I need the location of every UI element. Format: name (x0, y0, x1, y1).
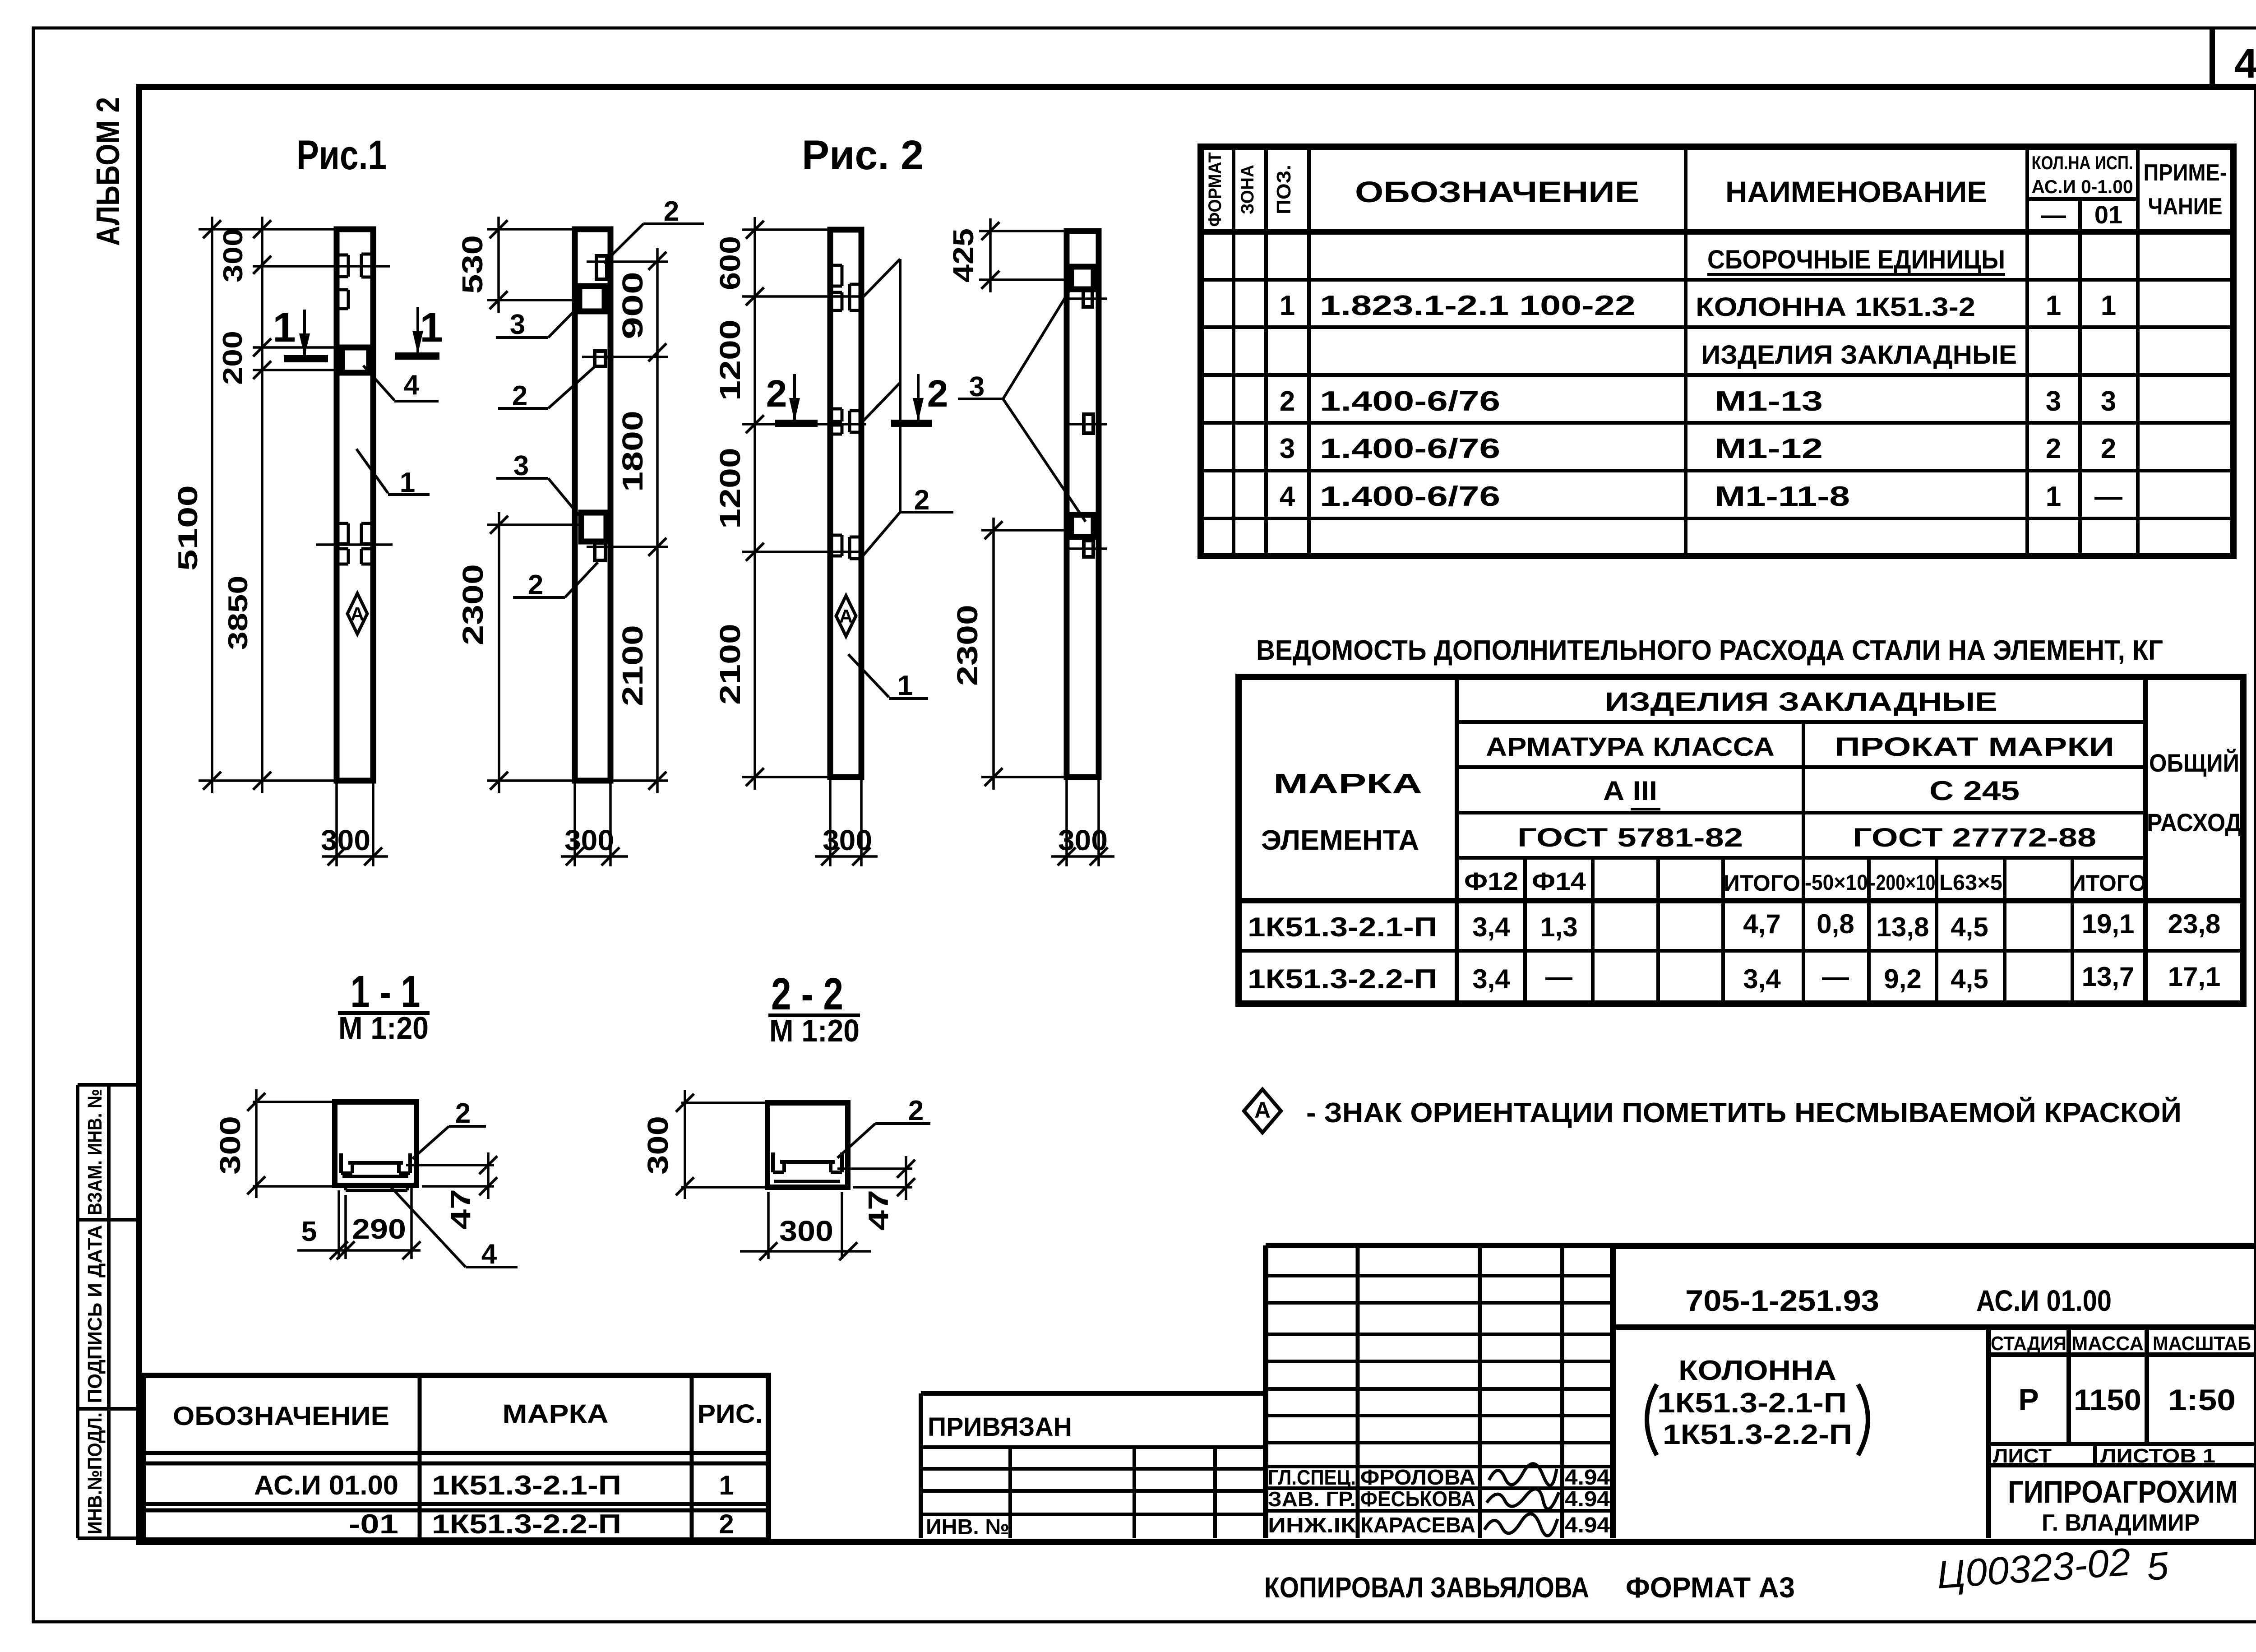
svg-text:Ц00323-02: Ц00323-02 (1936, 1540, 2132, 1597)
svg-text:КОПИРОВАЛ ЗАВЬЯЛОВА: КОПИРОВАЛ ЗАВЬЯЛОВА (1264, 1571, 1589, 1604)
svg-text:1:50: 1:50 (2168, 1383, 2236, 1416)
svg-text:М1-12: М1-12 (1715, 433, 1823, 464)
fig1 view1 plate item4 (342, 347, 369, 373)
svg-text:Ф12: Ф12 (1464, 867, 1518, 895)
svg-text:4.94: 4.94 (1565, 1513, 1610, 1537)
svg-text:КОЛ.НА ИСП.: КОЛ.НА ИСП. (2032, 152, 2133, 173)
svg-text:ГОСТ 27772-88: ГОСТ 27772-88 (1853, 823, 2096, 852)
svg-text:АЛЬБОМ 2: АЛЬБОМ 2 (90, 97, 126, 246)
svg-text:200: 200 (217, 331, 248, 385)
svg-text:1: 1 (400, 467, 415, 498)
title block left stamp (921, 1391, 1266, 1396)
svg-text:3: 3 (2101, 386, 2116, 417)
svg-text:ИЗДЕЛИЯ ЗАКЛАДНЫЕ: ИЗДЕЛИЯ ЗАКЛАДНЫЕ (1701, 340, 2017, 370)
svg-text:КОЛОННА 1К51.3-2: КОЛОННА 1К51.3-2 (1696, 292, 1975, 322)
svg-text:А: А (839, 606, 853, 627)
svg-text:300: 300 (321, 824, 370, 856)
svg-text:1К51.3-2.1-П: 1К51.3-2.1-П (1657, 1388, 1847, 1419)
fig1 view1 dim line 5100 (211, 217, 213, 793)
svg-text:1.400-6/76: 1.400-6/76 (1320, 481, 1500, 512)
svg-text:ЗАВ. ГР.: ЗАВ. ГР. (1268, 1487, 1356, 1511)
svg-text:1: 1 (420, 305, 443, 351)
svg-text:КАРАСЕВА: КАРАСЕВА (1360, 1513, 1475, 1537)
svg-text:- ЗНАК ОРИЕНТАЦИИ ПОМЕТИТЬ НЕС: - ЗНАК ОРИЕНТАЦИИ ПОМЕТИТЬ НЕСМЫВАЕМОЙ К… (1306, 1097, 2182, 1129)
svg-text:Рис.1: Рис.1 (296, 132, 387, 178)
fig2 view1 dim 600/1200/1200/2100 (754, 217, 756, 790)
svg-text:-50×10: -50×10 (1805, 871, 1868, 895)
svg-text:ИНЖ.IК: ИНЖ.IК (1268, 1513, 1356, 1537)
fig1 view1 mid plate marks (337, 522, 348, 525)
svg-text:300: 300 (779, 1215, 833, 1247)
svg-text:1150: 1150 (2074, 1383, 2141, 1416)
svg-text:Г. ВЛАДИМИР: Г. ВЛАДИМИР (2042, 1510, 2200, 1536)
fig1 view1 leader 1 (356, 449, 388, 493)
fig1 view2 leader 2 upper (548, 366, 596, 408)
svg-text:4: 4 (481, 1239, 497, 1270)
svg-text:—: — (2041, 200, 2066, 229)
section 1-1 channel plate (348, 1161, 403, 1165)
svg-text:ЧАНИЕ: ЧАНИЕ (2148, 194, 2223, 220)
fig2 view1 column outline (830, 230, 861, 777)
svg-text:ПОДПИСЬ И ДАТА: ПОДПИСЬ И ДАТА (84, 1225, 106, 1403)
svg-text:1200: 1200 (714, 319, 746, 401)
fig1 view2 leader 3 lower (548, 478, 582, 519)
svg-text:ПОЗ.: ПОЗ. (1273, 165, 1295, 214)
svg-text:ЭЛЕМЕНТА: ЭЛЕМЕНТА (1261, 825, 1419, 856)
svg-text:19,1: 19,1 (2082, 909, 2135, 939)
svg-text:3: 3 (2046, 386, 2061, 417)
svg-text:2: 2 (914, 485, 929, 516)
svg-text:5: 5 (301, 1216, 317, 1247)
svg-text:2100: 2100 (616, 625, 649, 706)
svg-text:ПРИМЕ-: ПРИМЕ- (2144, 160, 2227, 186)
svg-text:300: 300 (1058, 824, 1108, 856)
fig2 view2 dim 425 (989, 218, 992, 292)
section 1-1 dim 47 (406, 1164, 494, 1166)
section 2-2 dim 300 left (684, 1090, 686, 1199)
svg-text:А: А (1254, 1097, 1271, 1123)
svg-text:РИС.: РИС. (698, 1399, 763, 1429)
svg-text:47: 47 (863, 1190, 894, 1231)
fig1 view2 leader 2 top (604, 224, 643, 263)
svg-text:Р: Р (2018, 1383, 2039, 1417)
section 2-2 dim 300 bottom (767, 1192, 770, 1259)
fig1 view1 orientation diamond (347, 593, 367, 634)
svg-text:Ф14: Ф14 (1532, 867, 1586, 895)
fig1 view2 plate item3 top (579, 286, 605, 311)
svg-text:900: 900 (616, 272, 649, 339)
svg-text:2: 2 (2101, 433, 2116, 464)
svg-text:23,8: 23,8 (2168, 909, 2221, 939)
section 2-2 square outline (767, 1103, 848, 1187)
section 2-2 channel plate (780, 1160, 835, 1164)
note orientation diamond (1244, 1089, 1281, 1133)
svg-text:9,2: 9,2 (1884, 964, 1921, 994)
svg-text:4: 4 (404, 370, 420, 401)
svg-text:3,4: 3,4 (1472, 912, 1510, 942)
svg-text:1К51.3-2.1-П: 1К51.3-2.1-П (432, 1470, 621, 1500)
svg-text:0,8: 0,8 (1817, 909, 1854, 939)
section 1-1 square outline (335, 1102, 416, 1185)
fig1 view1 column outline (337, 229, 373, 781)
svg-text:1: 1 (273, 305, 296, 351)
svg-text:300: 300 (642, 1116, 674, 1175)
svg-text:ЗОНА: ЗОНА (1238, 165, 1257, 214)
svg-text:13,7: 13,7 (2082, 962, 2135, 992)
svg-text:ВЗАМ. ИНВ. №: ВЗАМ. ИНВ. № (84, 1089, 106, 1215)
svg-text:5: 5 (2145, 1544, 2171, 1589)
svg-text:2: 2 (2046, 433, 2061, 464)
svg-text:425: 425 (947, 228, 980, 282)
fig1 view1 section mark 1 right (395, 352, 439, 360)
svg-text:ФОРМАТ А3: ФОРМАТ А3 (1626, 1571, 1795, 1604)
section 1-1 dim 5 and 290 (337, 1190, 340, 1259)
svg-text:1: 1 (1280, 290, 1295, 321)
fig2 view2 dim 2300 (992, 518, 995, 790)
svg-text:ОБОЗНАЧЕНИЕ: ОБОЗНАЧЕНИЕ (1355, 175, 1639, 208)
fig2 view2 plate item3 top (1071, 267, 1094, 289)
fig2 view1 leader 1 (848, 654, 889, 697)
fig2 view1 orientation diamond (836, 596, 856, 636)
svg-text:4,5: 4,5 (1951, 964, 1988, 994)
svg-text:ФОРМАТ: ФОРМАТ (1205, 153, 1225, 227)
sheet number box (2210, 28, 2215, 87)
fig1 view2 dim 2300 (498, 512, 500, 793)
svg-text:НАИМЕНОВАНИЕ: НАИМЕНОВАНИЕ (1725, 175, 1987, 208)
svg-text:1К51.3-2.2-П: 1К51.3-2.2-П (1663, 1419, 1852, 1450)
svg-text:2: 2 (1280, 386, 1295, 417)
fig2 view2 leader 3 (958, 398, 1003, 400)
svg-text:ФРОЛОВА: ФРОЛОВА (1360, 1466, 1475, 1490)
svg-text:ОБЩИЙ: ОБЩИЙ (2149, 749, 2239, 777)
svg-text:2: 2 (927, 372, 948, 415)
svg-text:1: 1 (719, 1470, 734, 1500)
svg-text:ГОСТ 5781-82: ГОСТ 5781-82 (1517, 823, 1743, 852)
fig2 view1 plate marks mid (830, 407, 842, 411)
svg-text:ФЕСЬКОВА: ФЕСЬКОВА (1360, 1487, 1475, 1511)
fig1 view2 plate item2 second (595, 351, 606, 366)
section 2-2 dim 47 (837, 1167, 912, 1170)
svg-text:МАРКА: МАРКА (503, 1399, 609, 1429)
svg-text:4,5: 4,5 (1951, 912, 1988, 942)
svg-text:4.94: 4.94 (1565, 1466, 1610, 1490)
svg-text:1,3: 1,3 (1540, 912, 1577, 942)
steel table grid (1239, 677, 2243, 1004)
fig2 view1 plate marks lower (830, 534, 842, 537)
fig1 view2 dim 530 (497, 217, 500, 313)
svg-text:М1-11-8: М1-11-8 (1715, 481, 1850, 512)
svg-text:2300: 2300 (951, 605, 984, 686)
svg-text:1: 1 (2046, 481, 2061, 512)
svg-text:2: 2 (664, 196, 679, 227)
svg-text:СТАДИЯ: СТАДИЯ (1991, 1333, 2066, 1355)
svg-text:2: 2 (455, 1098, 471, 1129)
fig1 view1 bottom dim 300 (335, 781, 338, 866)
title block main (1610, 1246, 1616, 1538)
fig2 view2 bottom dim 300 (1065, 777, 1068, 866)
svg-text:5100: 5100 (173, 485, 203, 571)
svg-text:3850: 3850 (223, 576, 253, 650)
svg-text:ГИПРОАГРОХИМ: ГИПРОАГРОХИМ (2008, 1474, 2238, 1509)
svg-text:1.823.1-2.1 100-22: 1.823.1-2.1 100-22 (1320, 290, 1636, 321)
svg-text:4,7: 4,7 (1743, 909, 1780, 939)
fig2 view2 plate item2 top (1083, 291, 1092, 307)
svg-text:300: 300 (218, 228, 248, 282)
svg-text:1: 1 (2101, 290, 2116, 321)
svg-text:2: 2 (528, 569, 543, 601)
fig2 view2 plate item2 mid (1084, 414, 1093, 433)
svg-text:1.400-6/76: 1.400-6/76 (1320, 433, 1500, 464)
svg-text:ПРИВЯЗАН: ПРИВЯЗАН (928, 1412, 1072, 1442)
svg-text:2: 2 (908, 1095, 924, 1126)
svg-text:ПРОКАТ МАРКИ: ПРОКАТ МАРКИ (1835, 732, 2114, 762)
svg-text:ИТОГО: ИТОГО (2070, 870, 2146, 896)
section 1-1 leader 4 (390, 1186, 466, 1267)
svg-text:4: 4 (2234, 41, 2256, 87)
fig1 view2 leader 3 top (548, 308, 577, 338)
fig1 view2 plate item3 mid (581, 513, 606, 541)
svg-text:ИЗДЕЛИЯ ЗАКЛАДНЫЕ: ИЗДЕЛИЯ ЗАКЛАДНЫЕ (1605, 687, 1997, 717)
fig2 view2 plate item3 lower (1071, 515, 1094, 537)
fig2 view1 section mark 2 right (891, 420, 932, 427)
svg-text:47: 47 (445, 1189, 476, 1230)
svg-text:3: 3 (969, 371, 985, 403)
svg-text:L63×5: L63×5 (1939, 871, 2002, 895)
svg-text:—: — (1545, 962, 1572, 992)
svg-text:СБОРОЧНЫЕ ЕДИНИЦЫ: СБОРОЧНЫЕ ЕДИНИЦЫ (1707, 245, 2005, 274)
svg-text:ИТОГО: ИТОГО (1724, 870, 1800, 896)
svg-text:С 245: С 245 (1929, 776, 2020, 806)
fig1 view1 top plate marks (337, 254, 348, 257)
fig2 view2 plate item2 lower (1084, 541, 1093, 557)
svg-text:3,4: 3,4 (1743, 964, 1781, 994)
section 1-1 bottom strip item4 (346, 1189, 407, 1192)
svg-text:600: 600 (714, 236, 746, 290)
svg-text:705-1-251.93: 705-1-251.93 (1685, 1284, 1879, 1317)
svg-text:МАСШТАБ: МАСШТАБ (2153, 1333, 2251, 1355)
spec table grid (1201, 147, 2233, 556)
fig1 view2 column outline (575, 229, 610, 781)
svg-text:300: 300 (564, 824, 614, 856)
svg-text:Рис. 2: Рис. 2 (802, 132, 924, 178)
svg-text:1 - 1: 1 - 1 (351, 967, 421, 1017)
svg-text:530: 530 (456, 235, 489, 294)
svg-text:-200×10: -200×10 (1870, 871, 1936, 895)
svg-text:1800: 1800 (616, 411, 649, 492)
bottom-left registration table (143, 1375, 768, 1540)
svg-text:1К51.3-2.2-П: 1К51.3-2.2-П (432, 1509, 621, 1539)
svg-text:МАРКА: МАРКА (1273, 768, 1422, 800)
svg-text:АС.И 01.00: АС.И 01.00 (1976, 1284, 2112, 1317)
svg-text:300: 300 (823, 824, 872, 856)
title block signature grid (1263, 1245, 1268, 1538)
svg-text:РАСХОД: РАСХОД (2147, 808, 2242, 837)
fig1 view2 plate item2 top (596, 256, 607, 279)
svg-text:-01: -01 (349, 1509, 398, 1539)
svg-text:ИНВ. №: ИНВ. № (926, 1515, 1009, 1539)
svg-text:1К51.3-2.2-П: 1К51.3-2.2-П (1248, 964, 1437, 994)
fig1 view1 leader 4 (363, 366, 394, 400)
svg-text:290: 290 (352, 1214, 406, 1245)
svg-text:4.94: 4.94 (1565, 1487, 1610, 1511)
svg-text:13,8: 13,8 (1877, 912, 1929, 942)
fig1 view2 bottom dim 300 (573, 781, 576, 866)
section 2-2 leader 2 (837, 1124, 875, 1158)
section 1-1 leader 2 (412, 1126, 449, 1159)
svg-text:2: 2 (719, 1509, 734, 1539)
svg-text:2 - 2: 2 - 2 (771, 969, 843, 1019)
svg-text:ГЛ.СПЕЦ.: ГЛ.СПЕЦ. (1268, 1466, 1356, 1489)
svg-text:ИНВ.№ПОДЛ.: ИНВ.№ПОДЛ. (84, 1412, 106, 1534)
fig1 view2 plate item2 mid (595, 543, 606, 560)
svg-text:АС.И 01.00: АС.И 01.00 (254, 1470, 398, 1500)
svg-text:—: — (1822, 962, 1849, 992)
fig2 view1 plate marks top (830, 264, 842, 267)
svg-text:300: 300 (214, 1116, 246, 1175)
fig1 view2 leader 2 lower (565, 562, 598, 597)
svg-text:1К51.3-2.1-П: 1К51.3-2.1-П (1248, 912, 1437, 942)
fig1 view1 section mark 1 left (284, 355, 328, 362)
fig2 view1 section mark 2 left (775, 420, 818, 427)
svg-text:17,1: 17,1 (2168, 962, 2221, 992)
section 1-1 dim 300 left (255, 1089, 258, 1198)
svg-text:М 1:20: М 1:20 (338, 1010, 429, 1046)
svg-text:3: 3 (510, 309, 525, 340)
svg-text:МАССА: МАССА (2071, 1333, 2144, 1355)
svg-text:КОЛОННА: КОЛОННА (1678, 1355, 1836, 1386)
svg-text:А III: А III (1603, 776, 1657, 806)
svg-text:3: 3 (1280, 433, 1295, 464)
svg-text:01: 01 (2094, 200, 2122, 229)
fig2 view2 column outline (1067, 231, 1099, 777)
svg-text:ОБОЗНАЧЕНИЕ: ОБОЗНАЧЕНИЕ (173, 1402, 389, 1431)
svg-text:ВЕДОМОСТЬ ДОПОЛНИТЕЛЬНОГО РАСХ: ВЕДОМОСТЬ ДОПОЛНИТЕЛЬНОГО РАСХОДА СТАЛИ … (1256, 635, 2163, 666)
svg-text:М1-13: М1-13 (1715, 386, 1823, 417)
svg-text:А: А (351, 603, 364, 625)
svg-text:3: 3 (513, 450, 529, 481)
svg-text:АС.И 0-1.00: АС.И 0-1.00 (2032, 176, 2133, 197)
fig2 view1 bottom dim 300 (829, 777, 832, 866)
svg-text:4: 4 (1280, 481, 1295, 512)
side stamp boxes (76, 1085, 79, 1538)
title block стадия масса масштаб (1988, 1352, 2256, 1357)
svg-text:2300: 2300 (457, 564, 489, 645)
fig2 view1 leader 2 (862, 259, 900, 298)
svg-text:2: 2 (512, 380, 527, 412)
fig1 view2 dim 900/1800/2100 (656, 248, 659, 793)
svg-text:1.400-6/76: 1.400-6/76 (1320, 386, 1500, 417)
svg-text:М 1:20: М 1:20 (769, 1013, 860, 1048)
svg-text:2: 2 (766, 372, 787, 415)
svg-text:АРМАТУРА КЛАССА: АРМАТУРА КЛАССА (1486, 732, 1775, 762)
svg-text:1: 1 (2046, 290, 2061, 321)
svg-text:3,4: 3,4 (1472, 964, 1510, 994)
svg-text:1200: 1200 (714, 448, 746, 529)
svg-text:—: — (2094, 481, 2122, 512)
svg-text:2100: 2100 (714, 624, 746, 705)
svg-text:1: 1 (897, 670, 913, 701)
fig1 view1 dim line 300/200/3850 (261, 217, 264, 793)
